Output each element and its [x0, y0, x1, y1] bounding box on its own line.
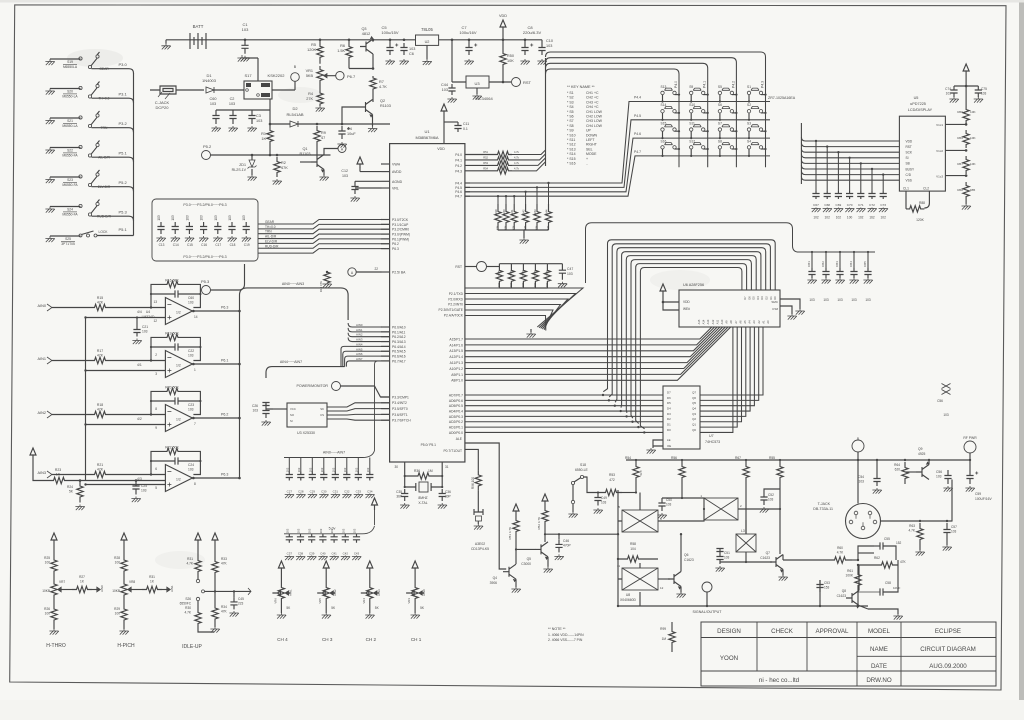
svg-text:CH 2: CH 2	[366, 637, 377, 642]
svg-text:103: 103	[865, 298, 871, 302]
svg-text:X-TAL: X-TAL	[418, 501, 427, 505]
svg-text:C57: C57	[951, 525, 957, 529]
svg-text:R58: R58	[630, 542, 636, 546]
svg-text:R7: R7	[379, 80, 384, 84]
svg-text:103: 103	[366, 467, 370, 472]
svg-text:4.7k: 4.7k	[514, 161, 520, 165]
svg-text:P3.2/CMR0: P3.2/CMR0	[392, 228, 409, 232]
svg-text:AIN2: AIN2	[333, 589, 337, 596]
svg-text:R46: R46	[509, 270, 513, 276]
svg-text:R47: R47	[521, 270, 525, 276]
svg-text:P4.2: P4.2	[455, 164, 462, 168]
svg-text:AIN6: AIN6	[356, 352, 363, 356]
svg-text:470P: 470P	[563, 544, 572, 548]
svg-text:R28: R28	[114, 556, 120, 560]
svg-text:* S7: * S7	[567, 119, 574, 123]
svg-text:P2.2/INT0: P2.2/INT0	[448, 303, 463, 307]
svg-text:ELV-D/R: ELV-D/R	[265, 239, 278, 243]
capacitor C49 103	[597, 491, 599, 493]
terminal B node	[272, 81, 295, 90]
svg-text:22: 22	[374, 267, 378, 271]
svg-text:A2: A2	[757, 320, 761, 324]
svg-text:Q1: Q1	[302, 147, 307, 151]
svg-text:P3.2: P3.2	[119, 121, 128, 126]
terminal B2	[852, 440, 864, 452]
transistor Q6 C1623	[658, 578, 670, 580]
svg-text:C31: C31	[333, 490, 339, 494]
svg-text:47K: 47K	[97, 353, 104, 357]
svg-text:153: 153	[824, 586, 830, 590]
svg-text:4812: 4812	[362, 32, 370, 36]
svg-text:LEFT: LEFT	[586, 138, 595, 142]
svg-text:2. 4066 VSS------7 PIN: 2. 4066 VSS------7 PIN	[548, 638, 583, 642]
svg-text:R60: R60	[837, 546, 843, 550]
svg-text:103: 103	[141, 489, 147, 493]
svg-text:10K: 10K	[970, 110, 976, 114]
svg-text:D3: D3	[760, 296, 764, 300]
svg-text:103: 103	[229, 102, 235, 106]
svg-text:P6.3: P6.3	[221, 306, 228, 310]
svg-text:Q4: Q4	[493, 576, 498, 580]
mcu right pin RST	[465, 266, 477, 268]
svg-text:S6: S6	[718, 103, 722, 107]
svg-text:AD0/P0.0: AD0/P0.0	[449, 431, 463, 435]
svg-text:4.7K: 4.7K	[837, 551, 844, 555]
svg-text:S9: S9	[689, 85, 693, 89]
svg-text:P4.5: P4.5	[455, 186, 462, 190]
svg-text:C54: C54	[858, 475, 864, 479]
svg-text:Q8: Q8	[842, 589, 846, 593]
wire Q3 collector to R7	[349, 54, 373, 69]
svg-text:R67: R67	[735, 456, 741, 460]
svg-text:C3000: C3000	[521, 562, 531, 566]
pot VR1 5KB	[317, 66, 323, 84]
transistor Q8 C1623	[844, 599, 846, 601]
svg-text:120K: 120K	[307, 48, 316, 52]
mcu left pins VWH AVDD AGND VRL	[381, 163, 403, 191]
resistor R61 100K	[857, 565, 859, 570]
svg-text:4925: 4925	[918, 452, 926, 456]
svg-text:30: 30	[394, 465, 398, 469]
capacitor C35 36P	[404, 486, 406, 488]
svg-text:1.5K: 1.5K	[337, 49, 345, 53]
svg-text:CH3 +C: CH3 +C	[586, 100, 599, 104]
svg-text:S16: S16	[661, 139, 667, 143]
svg-text:TRN: TRN	[265, 230, 272, 234]
svg-text:R96 100: R96 100	[471, 477, 475, 489]
vdd arrow mcu	[441, 104, 447, 111]
svg-text:103: 103	[666, 503, 672, 507]
svg-text:R34: R34	[221, 605, 227, 609]
svg-text:ALE: ALE	[456, 437, 463, 441]
battery BATT	[190, 33, 206, 49]
svg-text:AIN1: AIN1	[170, 585, 174, 592]
svg-text:C69: C69	[836, 203, 842, 207]
svg-text:U2: U2	[425, 40, 430, 44]
svg-text:C72: C72	[869, 203, 875, 207]
transistor Q7 C1623	[746, 561, 772, 563]
svg-text:D6: D6	[747, 296, 751, 300]
svg-text:D7: D7	[667, 390, 671, 394]
svg-text:AIL-D/R: AIL-D/R	[265, 235, 277, 239]
svg-text:VCC: VCC	[290, 407, 296, 411]
svg-text:A8/P1.0: A8/P1.0	[451, 379, 463, 383]
svg-text:R51: R51	[483, 150, 488, 154]
svg-text:103: 103	[946, 92, 952, 96]
svg-text:8: 8	[155, 407, 157, 411]
svg-text:C53: C53	[824, 581, 830, 585]
svg-text:47K: 47K	[509, 282, 513, 287]
T-JACK connector	[846, 504, 881, 539]
svg-text:S11: S11	[689, 122, 695, 126]
svg-text:H-THRO: H-THRO	[46, 643, 66, 649]
svg-text:103: 103	[768, 498, 774, 502]
svg-text:3: 3	[155, 372, 157, 376]
svg-text:M6550-LA: M6550-LA	[62, 95, 78, 99]
svg-text:P3.0: P3.0	[119, 62, 128, 67]
svg-text:C29: C29	[310, 490, 316, 494]
svg-text:103: 103	[354, 467, 358, 472]
svg-text:103: 103	[297, 467, 301, 472]
trimmer VR4 5K CH 2	[361, 561, 381, 642]
capacitor C4 10uF	[341, 123, 344, 126]
svg-text:DRW.NO: DRW.NO	[866, 677, 892, 684]
svg-text:S15: S15	[661, 122, 667, 126]
svg-text:S12: S12	[689, 139, 695, 143]
svg-text:S13: S13	[661, 85, 667, 89]
capacitor C5 100u/15V	[386, 43, 393, 55]
svg-text:AIN1: AIN1	[356, 328, 363, 332]
transistor Q4 3906	[503, 564, 516, 579]
capacitor C10 103	[538, 43, 545, 55]
svg-text:P5.1: P5.1	[119, 151, 128, 156]
capacitor C56 103	[928, 479, 930, 481]
resistor R5 120K	[319, 39, 322, 42]
svg-text:AIN3: AIN3	[356, 338, 363, 342]
svg-text:* S13: * S13	[567, 147, 576, 151]
svg-text:P6.1: P6.1	[221, 359, 228, 363]
svg-text:P3.7/SFTCH: P3.7/SFTCH	[392, 419, 411, 423]
svg-text:AIN0~~~AIN3: AIN0~~~AIN3	[282, 282, 304, 286]
svg-text:C13: C13	[159, 243, 165, 247]
svg-text:2: 2	[155, 353, 157, 357]
svg-text:R66: R66	[957, 136, 963, 140]
svg-text:AIN7: AIN7	[356, 357, 363, 361]
svg-text:P4.7: P4.7	[634, 150, 641, 154]
svg-text:CH 3: CH 3	[322, 637, 333, 642]
svg-text:LE: LE	[667, 438, 671, 442]
svg-text:103: 103	[343, 467, 347, 472]
regulator U2 78L05	[416, 35, 439, 45]
switch S25 LOCK 3PT1T05	[45, 227, 133, 246]
svg-text:AGND: AGND	[392, 180, 403, 184]
svg-text:103: 103	[214, 215, 218, 221]
svg-text:47: 47	[321, 136, 325, 140]
terminal RST	[512, 78, 521, 87]
svg-text:10K: 10K	[970, 136, 976, 140]
svg-text:DESIGN: DESIGN	[717, 628, 741, 635]
svg-text:* S12: * S12	[567, 143, 576, 147]
mcu right pins P4.0-P4.3 with resistors R51-R54 4.7K	[455, 150, 519, 174]
svg-text:MODE: MODE	[586, 152, 597, 156]
svg-text:P5.1: P5.1	[119, 227, 128, 232]
svg-text:VSS: VSS	[906, 179, 912, 183]
svg-text:C50: C50	[666, 498, 672, 502]
wire bus P2 group	[465, 288, 583, 338]
svg-text:AIN3: AIN3	[38, 471, 46, 475]
capacitor C57 103	[943, 523, 950, 539]
switch S21 M6550-LA	[45, 111, 133, 132]
svg-text:R15: R15	[97, 296, 103, 300]
svg-text:S23: S23	[67, 178, 73, 182]
svg-text:Q6: Q6	[684, 553, 689, 557]
svg-text:R61: R61	[847, 569, 853, 573]
svg-text:L3: L3	[741, 529, 745, 533]
wire Q5 collector to U8	[545, 533, 618, 535]
svg-text:C2: C2	[230, 97, 235, 101]
svg-text:CH3 LOW: CH3 LOW	[586, 119, 603, 123]
svg-text:SEL: SEL	[586, 147, 593, 151]
svg-text:103: 103	[228, 215, 232, 221]
wire bus U6 top nested to data bus	[603, 240, 775, 429]
svg-text:P6.2: P6.2	[221, 413, 228, 417]
svg-text:* S2: * S2	[567, 96, 574, 100]
svg-text:10KB: 10KB	[112, 589, 120, 593]
capacitor C6 103	[403, 39, 406, 42]
svg-text:A12/P1.4: A12/P1.4	[449, 355, 463, 359]
svg-text:CH2 LOW: CH2 LOW	[586, 115, 603, 119]
svg-text:103: 103	[837, 298, 843, 302]
svg-text:* S10: * S10	[567, 133, 576, 137]
svg-text:R51 4.7K: R51 4.7K	[508, 527, 512, 540]
svg-text:R43: R43	[533, 209, 537, 214]
resistor R58 104	[622, 556, 644, 562]
svg-text:RIGHT: RIGHT	[586, 143, 598, 147]
resistor R1 1K	[267, 124, 273, 148]
switch S22 M6550-FA	[45, 141, 133, 162]
wire bus P4.0-P4.3 to keypad columns	[512, 52, 766, 171]
svg-text:47K: 47K	[533, 282, 537, 287]
svg-text:MODEL: MODEL	[868, 628, 891, 635]
svg-text:A7: A7	[734, 320, 738, 324]
svg-text:C/D: C/D	[906, 173, 912, 177]
svg-text:103: 103	[319, 528, 323, 533]
svg-text:7: 7	[194, 422, 196, 426]
bias bus vertical	[85, 318, 87, 481]
svg-text:10K: 10K	[970, 162, 976, 166]
svg-text:C59: C59	[975, 492, 981, 496]
svg-text:C41: C41	[331, 552, 337, 556]
eprom U6 A28F256	[679, 290, 780, 327]
svg-text:C46: C46	[563, 539, 569, 543]
svg-text:P5.2: P5.2	[203, 144, 212, 149]
svg-text:R67: R67	[957, 162, 963, 166]
svg-text:C55: C55	[884, 537, 890, 541]
svg-text:R20 50K: R20 50K	[165, 386, 179, 390]
svg-text:R55: R55	[769, 456, 775, 460]
wire bus AIN loop	[238, 282, 389, 479]
resistor R56 47K	[681, 459, 683, 461]
svg-text:POWER/MONITOR: POWER/MONITOR	[297, 384, 329, 388]
wire bus U7 outputs to U6 data	[700, 327, 763, 432]
svg-text:C17: C17	[215, 243, 221, 247]
svg-text:V1c3: V1c3	[936, 175, 943, 179]
svg-text:78L05: 78L05	[421, 27, 433, 32]
svg-text:C1623: C1623	[684, 558, 694, 562]
mcu U1 M38B67M6A	[390, 144, 465, 462]
svg-text:..: ..	[586, 162, 588, 166]
svg-text:C45: C45	[238, 597, 244, 601]
capacitor C8 220u/6.3V	[524, 39, 527, 42]
svg-text:R19 50K: R19 50K	[165, 332, 179, 336]
svg-text:103: 103	[823, 298, 829, 302]
capacitor C12 103	[360, 168, 381, 172]
svg-text:D2: D2	[292, 106, 298, 111]
svg-text:C6: C6	[409, 52, 414, 56]
svg-text:S22: S22	[67, 149, 73, 153]
svg-text:S18: S18	[580, 463, 586, 467]
svg-text:C28: C28	[298, 490, 304, 494]
svg-text:R1103: R1103	[380, 104, 391, 108]
svg-text:AIN4~~~AIN7: AIN4~~~AIN7	[280, 360, 302, 364]
svg-text:100: 100	[45, 561, 51, 565]
svg-text:D2: D2	[667, 417, 671, 421]
svg-text:UP: UP	[586, 129, 592, 133]
svg-text:P6.2: P6.2	[392, 242, 399, 246]
svg-text:C39: C39	[309, 552, 315, 556]
svg-text:103: 103	[951, 530, 957, 534]
svg-text:P5.3: P5.3	[201, 279, 210, 284]
svg-text:A13: A13	[706, 319, 710, 324]
op-amp U4 part 4/3	[38, 446, 241, 492]
svg-text:S2: S2	[747, 103, 751, 107]
svg-text:R39: R39	[494, 209, 498, 214]
svg-text:CB4: CB4	[849, 261, 853, 267]
svg-text:AIN1: AIN1	[38, 357, 46, 361]
svg-text:30P: 30P	[445, 495, 451, 499]
svg-text:D6: D6	[667, 396, 671, 400]
svg-text:CS#: CS#	[772, 307, 778, 311]
svg-text:VDD: VDD	[437, 147, 445, 151]
svg-text:CH 4: CH 4	[277, 637, 288, 642]
svg-text:U4: U4	[146, 310, 150, 314]
svg-text:S19: S19	[67, 60, 73, 64]
svg-text:VRL: VRL	[392, 187, 399, 191]
svg-text:AIN1: AIN1	[288, 589, 292, 596]
svg-text:100UF/16V: 100UF/16V	[975, 497, 992, 501]
svg-text:47K: 47K	[521, 282, 525, 287]
svg-text:13: 13	[153, 300, 157, 304]
svg-text:D5: D5	[752, 296, 756, 300]
mcu left pins P3.0-P6.3	[381, 218, 410, 251]
svg-text:P2.1/TXD: P2.1/TXD	[449, 292, 464, 296]
svg-text:R68: R68	[957, 188, 963, 192]
svg-text:X040660D: X040660D	[620, 598, 637, 602]
svg-text:R21: R21	[97, 463, 103, 467]
svg-text:* S15: * S15	[567, 157, 576, 161]
svg-text:A4: A4	[748, 320, 752, 324]
svg-text:74HC573: 74HC573	[705, 440, 720, 444]
svg-text:47K: 47K	[497, 282, 501, 287]
resistor R96 100	[465, 449, 478, 470]
svg-text:103: 103	[242, 27, 249, 32]
svg-text:620: 620	[895, 468, 901, 472]
svg-text:P4.6: P4.6	[634, 132, 641, 136]
switch S19 M6550LA	[45, 52, 133, 73]
svg-text:AIN2: AIN2	[356, 333, 363, 337]
svg-text:C10: C10	[546, 39, 553, 43]
eeprom U3 X25330	[287, 403, 327, 427]
svg-text:CB3: CB3	[835, 261, 839, 267]
terminal SIGNAL/OUTPUT	[702, 582, 712, 592]
svg-text:103: 103	[858, 480, 864, 484]
svg-text:* S1: * S1	[567, 91, 574, 95]
svg-text:6550FC: 6550FC	[180, 602, 192, 606]
svg-text:S5: S5	[718, 85, 722, 89]
capacitor C59 100UF/16V	[966, 470, 973, 484]
capacitor C47 103	[548, 263, 563, 265]
svg-text:AD1/P0.1: AD1/P0.1	[449, 426, 463, 430]
svg-text:* S4: * S4	[567, 105, 574, 109]
vdd arrow bias	[30, 448, 36, 461]
svg-text:472: 472	[609, 478, 615, 482]
svg-text:KSK2202: KSK2202	[268, 73, 286, 78]
transistor Q3 4812	[372, 39, 375, 42]
wire P5.0 to Q4	[465, 443, 506, 569]
svg-text:AD2/P0.2: AD2/P0.2	[449, 420, 463, 424]
svg-text:P4.0: P4.0	[674, 81, 678, 88]
svg-text:P4.1: P4.1	[455, 158, 462, 162]
svg-text:P4.2: P4.2	[731, 81, 735, 88]
svg-text:D1: D1	[769, 296, 773, 300]
svg-text:R33: R33	[221, 557, 227, 561]
svg-text:U7: U7	[709, 434, 714, 438]
svg-text:P3.1/1CAP: P3.1/1CAP	[392, 223, 409, 227]
cap array 5.0v C37-C43	[284, 498, 378, 560]
svg-text:AIN4: AIN4	[356, 342, 363, 346]
svg-text:103: 103	[256, 119, 262, 123]
svg-text:D2: D2	[765, 296, 769, 300]
svg-text:VR1: VR1	[306, 69, 313, 73]
svg-text:CB1: CB1	[807, 261, 811, 267]
capacitor array C67-C73 102	[811, 140, 888, 220]
svg-text:R6: R6	[340, 44, 345, 48]
svg-text:P4.5: P4.5	[634, 114, 641, 118]
svg-text:R22 50K: R22 50K	[165, 446, 179, 450]
svg-text:4/4: 4/4	[137, 310, 142, 314]
mcu left pins P3.3-P3.7	[381, 395, 411, 422]
resistor R50 10K	[500, 52, 506, 66]
capacitor C55 152	[857, 553, 859, 560]
svg-text:P4.7: P4.7	[455, 195, 462, 199]
terminal A mcu	[356, 271, 381, 273]
svg-text:R41: R41	[510, 209, 514, 214]
svg-text:103: 103	[171, 215, 175, 221]
trimmer VR5 5K CH 3	[317, 561, 337, 642]
resistor R63 4.7K	[917, 523, 923, 545]
svg-text:VR5: VR5	[318, 598, 322, 604]
svg-text:9: 9	[155, 426, 157, 430]
analog switch U8a	[622, 510, 658, 532]
svg-text:P6.0/A10: P6.0/A10	[392, 325, 406, 329]
svg-text:P4.1: P4.1	[703, 81, 707, 88]
svg-text:P3.0/T2CK: P3.0/T2CK	[392, 218, 409, 222]
svg-text:CHECK: CHECK	[771, 628, 794, 635]
svg-text:C49: C49	[601, 496, 607, 500]
resistor R9 47	[316, 123, 319, 126]
svg-text:P0.7/T1OUT: P0.7/T1OUT	[443, 449, 462, 453]
svg-text:100: 100	[45, 612, 51, 616]
